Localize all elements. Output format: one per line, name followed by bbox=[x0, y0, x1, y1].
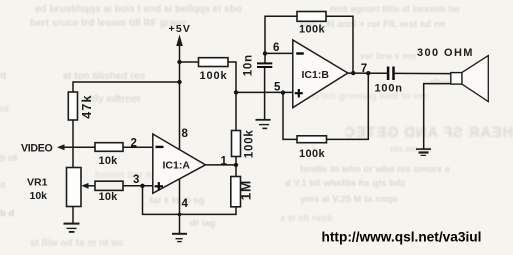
svg-text:a st idt nesb: a st idt nesb bbox=[280, 213, 333, 223]
resistor 47k bbox=[68, 92, 77, 120]
wire top feedback loop bbox=[265, 16, 297, 53]
wire bottom feedback loop bbox=[283, 93, 297, 140]
wire feedback bottom run bbox=[143, 186, 237, 215]
svg-text:IC1:B: IC1:B bbox=[302, 69, 330, 81]
wire op-amp A output bbox=[206, 164, 237, 166]
svg-text:300 OHM: 300 OHM bbox=[417, 47, 474, 59]
svg-text:100k: 100k bbox=[244, 129, 256, 158]
resistor 100k (top feedback) bbox=[297, 12, 326, 22]
svg-text:dt iag: dt iag bbox=[190, 218, 216, 229]
wire 10k to pin2 bbox=[123, 146, 153, 148]
node rail/100k bbox=[177, 60, 181, 64]
svg-text:lsndie to who or wbo nis smors: lsndie to who or wbo nis smors a bbox=[300, 164, 451, 175]
svg-text:2: 2 bbox=[131, 137, 137, 149]
node output A bbox=[234, 163, 238, 167]
wire 1M stubs bbox=[235, 165, 237, 177]
svg-text:bert sruce trd lesom till RF g: bert sruce trd lesom till RF granc bbox=[30, 18, 187, 29]
svg-text:100k: 100k bbox=[299, 148, 326, 160]
node rail/47k bbox=[177, 80, 181, 84]
wire speaker return to ground bbox=[424, 84, 451, 149]
svg-text:bsmm itsr n: bsmm itsr n bbox=[95, 170, 152, 181]
svg-text:b d: b d bbox=[0, 208, 14, 219]
svg-text:VIDEO: VIDEO bbox=[21, 142, 53, 154]
svg-text:tal s lo ai sg: tal s lo ai sg bbox=[150, 195, 205, 206]
svg-text:IC1:A: IC1:A bbox=[163, 159, 191, 171]
wire VR1 bottom to ground bbox=[72, 207, 74, 224]
svg-text:4: 4 bbox=[182, 198, 189, 210]
capacitor C1 10n bbox=[257, 62, 272, 64]
wire 47k bottom to VR1 top bbox=[72, 120, 74, 168]
resistor 100k (stage1 top) bbox=[199, 58, 229, 67]
svg-text:5: 5 bbox=[274, 82, 281, 94]
wire cap 10n bottom to ground bbox=[264, 68, 266, 120]
svg-text:1: 1 bbox=[221, 155, 228, 167]
speaker 300 OHM bbox=[451, 73, 462, 85]
wire 10k to pin3 bbox=[123, 185, 153, 187]
node pin3 bbox=[140, 184, 144, 188]
svg-text:ver brw s nor: ver brw s nor bbox=[360, 51, 417, 61]
svg-text:q: q bbox=[0, 70, 6, 81]
wire 100k vertical column bbox=[235, 92, 237, 130]
svg-text:d V.1 bil whsttis hs qts bdz: d V.1 bil whsttis hs qts bdz bbox=[285, 178, 406, 189]
svg-text:6: 6 bbox=[273, 42, 279, 54]
node pin4/feedback cross bbox=[178, 213, 182, 217]
potentiometer VR1 10k bbox=[67, 168, 82, 207]
svg-text:10k: 10k bbox=[99, 155, 119, 167]
svg-text:100k: 100k bbox=[200, 70, 228, 82]
svg-text:10k: 10k bbox=[99, 191, 119, 203]
wire R-100k-1 to node B column bbox=[228, 62, 236, 92]
svg-text:1M: 1M bbox=[239, 180, 254, 200]
wire rail left to 47k column bbox=[73, 82, 180, 92]
ground (under speaker) bbox=[416, 149, 431, 155]
svg-text:100k: 100k bbox=[299, 23, 326, 35]
svg-text:+5V: +5V bbox=[169, 23, 192, 35]
node pin6 bbox=[263, 51, 267, 55]
op-amp U2 IC1:B bbox=[293, 40, 348, 108]
node pin5 bbox=[281, 90, 285, 94]
svg-text:rtly edtrnm: rtly edtrnm bbox=[88, 94, 140, 105]
resistor 10k (pin3) bbox=[95, 181, 123, 190]
node output B bottom bbox=[366, 71, 370, 75]
wire cap 100n to speaker bbox=[395, 72, 451, 74]
svg-text:10n: 10n bbox=[243, 54, 255, 76]
wire op-amp B output to cap 100n bbox=[348, 72, 387, 74]
resistor 10k (pin2) bbox=[95, 143, 123, 152]
resistor 100k (vertical) bbox=[232, 131, 241, 157]
resistor 100k (bottom feedback) bbox=[297, 136, 327, 143]
wire node B to pin5 bbox=[236, 91, 293, 93]
svg-text:10k: 10k bbox=[30, 190, 48, 202]
svg-text:noit agnurt liito st bessim ta: noit agnurt liito st bessim tar bbox=[330, 4, 461, 15]
svg-text:al ton blished res: al ton blished res bbox=[63, 71, 146, 82]
svg-text:47k: 47k bbox=[80, 94, 94, 118]
wire pin6 row bbox=[265, 52, 293, 54]
svg-text:b rd: b rd bbox=[0, 153, 17, 163]
resistor 1M bbox=[231, 177, 241, 207]
node output B top bbox=[351, 71, 355, 75]
capacitor C2 100n bbox=[387, 67, 390, 81]
VIDEO arrow bbox=[57, 144, 65, 150]
+5V rail wire bbox=[179, 43, 181, 150]
svg-text:8: 8 bbox=[182, 128, 189, 140]
wire rail to R-100k-1 bbox=[180, 61, 199, 63]
wire cap 10n top bbox=[264, 53, 266, 62]
ground (pin 4) bbox=[172, 234, 187, 242]
svg-text:ed bruslihqqs ai bois I end ai: ed bruslihqqs ai bois I end ai beilqqs e… bbox=[35, 4, 242, 15]
wire pin4 to ground bbox=[179, 179, 181, 234]
svg-text:st lliw od ta m nt wc: st lliw od ta m nt wc bbox=[30, 238, 125, 249]
svg-text:100n: 100n bbox=[375, 83, 403, 95]
ground (under 10n) bbox=[256, 120, 271, 129]
svg-text:VR1: VR1 bbox=[27, 176, 48, 188]
svg-text:http://www.qsl.net/va3iul: http://www.qsl.net/va3iul bbox=[322, 229, 482, 244]
node B (100k to pin5) bbox=[234, 90, 238, 94]
svg-text:d: d bbox=[0, 180, 6, 190]
svg-text:yms al V.25 M ta nsqo: yms al V.25 M ta nsqo bbox=[300, 194, 398, 205]
ground (under VR1) bbox=[64, 224, 80, 232]
wire VR1 wiper to 10k bbox=[87, 185, 96, 187]
op-amp U1 IC1:A bbox=[153, 134, 206, 193]
wire VIDEO to 10k bbox=[62, 146, 95, 148]
+5V arrow bbox=[176, 35, 183, 47]
svg-text:3: 3 bbox=[133, 174, 139, 186]
big mirrored heading bleed-through bbox=[343, 125, 513, 141]
svg-text:nt: nt bbox=[0, 104, 9, 114]
